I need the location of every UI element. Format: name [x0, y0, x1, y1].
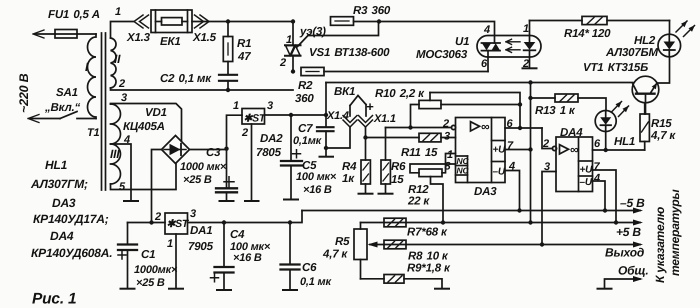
connector X1.5	[195, 15, 210, 28]
ground C6	[283, 289, 297, 291]
ground Obshch output	[598, 279, 641, 289]
ground C1	[121, 288, 135, 290]
label R8 10 k	[408, 251, 449, 263]
svg-text:NC: NC	[457, 156, 470, 166]
resistor R14	[582, 16, 670, 24]
svg-text:+U: +U	[580, 165, 594, 176]
wire +5V riser to top rail	[325, 83, 327, 116]
svg-text:Общ.: Общ.	[618, 264, 649, 278]
wire DA2 input riser	[227, 115, 243, 149]
svg-text:ВК1: ВК1	[334, 86, 355, 98]
node DA1 input junction	[149, 220, 153, 224]
svg-text:2: 2	[118, 78, 125, 90]
capacitor C6	[281, 223, 300, 291]
svg-text:VD1: VD1	[145, 107, 167, 119]
label HL2 AL307BM	[605, 35, 658, 59]
wire EK1 to node 220V-A	[192, 21, 228, 23]
wire DA3 pin6 output	[505, 127, 542, 129]
svg-text:3: 3	[190, 208, 196, 220]
svg-text:SA1: SA1	[56, 87, 78, 99]
connector X1.3	[134, 15, 149, 28]
+5V rail top	[326, 82, 633, 84]
label Ris. 1	[32, 291, 76, 308]
label R1 47	[237, 38, 251, 63]
svg-text:×25 В: ×25 В	[136, 277, 165, 289]
wire mains upper lead with arrow	[33, 30, 55, 38]
node junction R1 top	[226, 19, 230, 23]
svg-text:DA3: DA3	[474, 186, 497, 198]
svg-text:4: 4	[483, 24, 490, 36]
HL2 light arrows	[676, 21, 695, 37]
U1 internal light arrows	[506, 39, 520, 52]
wire DA2 output +5V	[265, 114, 327, 116]
node C2 bottom junction	[226, 88, 230, 92]
node C6 top	[288, 220, 292, 224]
svg-text:К указателю: К указателю	[653, 207, 667, 283]
potentiometer R12	[410, 154, 456, 223]
label C1 1000mk 25V	[134, 249, 178, 289]
label R15 4,7 k	[650, 118, 676, 142]
svg-text:✱ST: ✱ST	[167, 218, 190, 230]
label K ukazatelyu temperatury	[653, 189, 682, 283]
svg-text:∞: ∞	[481, 120, 490, 134]
label R11 15	[401, 147, 438, 159]
label C4 100mk 16V	[230, 229, 271, 264]
svg-text:1: 1	[286, 34, 292, 46]
wire DA3 pin4 to -5V	[505, 171, 520, 211]
resistor R11	[419, 133, 441, 142]
label -5 V	[620, 196, 645, 210]
wire VS1 gate	[298, 22, 379, 47]
node R12 wiper on +5V	[441, 220, 445, 224]
ground R4	[359, 193, 373, 195]
label R14* 120	[564, 28, 611, 40]
svg-text:АЛ307ГМ;: АЛ307ГМ;	[30, 177, 88, 191]
svg-text:1к: 1к	[342, 173, 355, 185]
opamp DA4	[552, 137, 592, 192]
svg-text:VT1 КТ315Б: VT1 КТ315Б	[583, 62, 648, 74]
-5V rail	[302, 210, 640, 212]
wire DA3 pin3 line	[366, 137, 456, 139]
label *ST DA2	[244, 113, 267, 125]
wire HL2 cathode to VT1 emitter	[658, 57, 670, 83]
svg-text:R3 360: R3 360	[353, 5, 391, 17]
wire winding III pin 4 tap to ground	[111, 144, 132, 201]
ground C3	[220, 200, 234, 202]
label R2 360	[295, 80, 314, 105]
svg-text:3: 3	[121, 92, 127, 104]
arrow +5V	[633, 220, 643, 226]
ground R6	[379, 193, 393, 195]
label ~220 V	[17, 73, 31, 113]
wire C2 to pin2 line	[227, 81, 229, 90]
label *ST DA1	[167, 218, 190, 230]
label X1.3	[126, 32, 151, 44]
svg-text:2: 2	[542, 138, 549, 150]
svg-text:R14* 120: R14* 120	[564, 28, 611, 40]
label VT1 KT315B	[583, 62, 648, 74]
wire DA4 pin6 output line	[593, 149, 645, 151]
node C4 top	[222, 220, 226, 224]
node C7 top	[324, 113, 328, 117]
regulator DA1 7905	[165, 213, 188, 289]
svg-text:Т1: Т1	[87, 127, 100, 139]
resistor R3	[331, 17, 380, 26]
resistor R7	[384, 218, 406, 227]
svg-text:Х1.5: Х1.5	[192, 32, 217, 44]
wire DA3 pin2 line	[386, 127, 452, 129]
svg-text:U1: U1	[455, 36, 469, 48]
label +5 V	[616, 225, 641, 239]
capacitor C4	[211, 223, 234, 291]
labels DA1 pins 2 3 1 and name	[154, 208, 214, 253]
wire DA1 output line	[188, 211, 303, 223]
svg-text:R2: R2	[298, 80, 313, 92]
svg-text:×16 В: ×16 В	[303, 184, 332, 196]
node DA3 out riser	[518, 126, 522, 130]
wire R10 feedback to DA3 output	[430, 93, 520, 129]
wire R2 to U1 pin6	[324, 71, 488, 73]
wire DA3 pin7	[505, 149, 531, 151]
node VS1 cathode junction	[291, 69, 295, 73]
node HL1 cathode junction	[604, 148, 608, 152]
label parts list HL1 DA3 DA4	[30, 158, 112, 260]
svg-text:ЕК1: ЕК1	[160, 36, 181, 48]
svg-text:„Вкл.“: „Вкл.“	[44, 102, 81, 114]
svg-text:DA4: DA4	[560, 127, 583, 139]
svg-text:АЛ307БМ: АЛ307БМ	[605, 47, 658, 59]
resistor R9	[361, 275, 443, 289]
resistor R8	[384, 240, 406, 249]
fuse FU1	[55, 30, 96, 39]
ground for winding III tap	[124, 200, 138, 202]
label VS1 pins 1 2 and ue(3)	[279, 26, 326, 69]
connector X1.4	[343, 116, 357, 128]
svg-text:4: 4	[593, 173, 600, 185]
svg-text:КР140УД608А.: КР140УД608А.	[31, 246, 112, 260]
svg-text:R15: R15	[651, 118, 672, 130]
svg-text:2: 2	[241, 127, 248, 139]
label C2 0,1 mk	[160, 73, 212, 85]
wire DA3 out to DA4 pin2	[542, 128, 553, 149]
label FU1 0,5 A	[48, 9, 100, 21]
svg-text:360: 360	[295, 93, 314, 105]
resistor R15	[640, 103, 649, 150]
svg-text:HL1: HL1	[45, 158, 68, 172]
svg-text:R13 1 к: R13 1 к	[535, 105, 576, 117]
wire X1.1 lead to node B	[365, 127, 367, 138]
svg-text:+5 В: +5 В	[616, 225, 641, 239]
transformer T1 winding III	[111, 104, 121, 184]
wire node A to VS1 anode node	[228, 21, 293, 23]
svg-text:R9*1,8 к: R9*1,8 к	[407, 263, 451, 275]
svg-text:R5: R5	[335, 236, 350, 248]
node DA3 pin7 junction	[528, 147, 532, 151]
labels U1 pins 4 6 1 2	[481, 23, 529, 70]
resistor R1	[223, 22, 232, 75]
label DA3	[474, 186, 497, 198]
node feedback R10 right	[518, 102, 522, 106]
svg-text:температуры: температуры	[668, 189, 682, 276]
svg-text:15: 15	[391, 174, 404, 186]
node X1.1 R4 junction	[363, 135, 367, 139]
resistor R4	[361, 138, 370, 194]
heater EK1	[151, 10, 192, 33]
node C5 top	[289, 113, 293, 117]
svg-text:1: 1	[447, 149, 453, 161]
node VS1 anode junction	[291, 19, 295, 23]
node +5V riser	[528, 220, 532, 224]
wire DA4 pin4 to -5V	[593, 181, 606, 211]
label R13 1 k	[535, 105, 576, 117]
ground DA1 pin1	[169, 288, 183, 290]
wire X1.4 lead to C7 node	[326, 127, 350, 148]
DA3 infinity symbol	[481, 120, 490, 134]
+5V bottom line	[361, 222, 641, 224]
label EK1	[160, 36, 181, 48]
label Vykhod	[605, 246, 644, 260]
svg-text:FU1 0,5 А: FU1 0,5 А	[48, 9, 100, 21]
switch SA1	[28, 112, 96, 123]
node -5V DA3 pin4	[517, 208, 521, 212]
triac VS1	[285, 22, 301, 72]
svg-text:NC: NC	[457, 166, 470, 176]
wire winding II pin 1 to EK1 line	[111, 22, 134, 39]
label R5 4,7 k	[322, 236, 350, 261]
node C3 top junction	[224, 147, 228, 151]
svg-text:×16 В: ×16 В	[233, 252, 262, 264]
transformer T1 core	[102, 33, 106, 190]
svg-text:2: 2	[279, 57, 286, 69]
arrow Obshch	[633, 276, 643, 282]
node R13 left	[528, 96, 532, 100]
svg-text:–5 В: –5 В	[620, 196, 645, 210]
svg-text:1: 1	[523, 23, 529, 35]
transistor VT1	[632, 76, 659, 114]
label R7* 68 k	[407, 227, 448, 239]
svg-text:VS1 ВТ138-600: VS1 ВТ138-600	[309, 47, 390, 59]
node C7 bottom junction	[324, 146, 328, 150]
wire +5V riser x530	[530, 83, 532, 223]
label X1.5	[192, 32, 217, 44]
label C5 100mk 16V	[296, 160, 337, 196]
svg-text:2: 2	[154, 211, 161, 223]
wire DA4 pin3 to output line	[542, 172, 556, 245]
svg-text:DA2: DA2	[260, 133, 283, 145]
svg-text:Х1.3: Х1.3	[126, 32, 151, 44]
sensor BK1	[350, 96, 366, 117]
svg-text:7905: 7905	[188, 241, 214, 253]
ground R9	[435, 288, 449, 290]
resistor R13	[531, 94, 607, 111]
wire winding III pin 5 to bridge bottom	[111, 164, 177, 190]
node DA4 pin7 on +5V	[614, 220, 618, 224]
svg-text:+U: +U	[493, 145, 507, 156]
svg-text:R12: R12	[408, 184, 429, 196]
label R10 2,2 k	[375, 88, 425, 100]
svg-text:47: 47	[237, 51, 251, 63]
regulator DA2 7805	[242, 109, 265, 202]
svg-text:×25 В: ×25 В	[183, 174, 212, 186]
svg-text:R11 15: R11 15	[401, 147, 438, 159]
labels DA3 pins 2 3 1 8 6 7 4	[442, 118, 515, 173]
label C3 1000mk 25V	[180, 147, 227, 186]
capacitor C5	[281, 115, 302, 200]
optocoupler U1 MOC3063	[477, 21, 541, 69]
label C6 0,1 mk	[300, 262, 332, 288]
output line Vykhod with R5 wiper arrow	[368, 242, 641, 248]
svg-text:С7: С7	[298, 123, 313, 135]
label X1.4	[326, 110, 349, 122]
label DA4	[560, 127, 583, 139]
svg-text:–U: –U	[580, 177, 593, 188]
svg-text:1: 1	[167, 238, 173, 250]
svg-text:R6: R6	[391, 161, 406, 173]
svg-text:DA4: DA4	[50, 229, 74, 243]
svg-text:КР140УД17А;: КР140УД17А;	[33, 212, 109, 226]
svg-text:2: 2	[442, 118, 449, 130]
wire U1 pin6 riser	[487, 51, 489, 72]
wire gate node to U1 pin4	[379, 22, 495, 44]
labels DA4 pins 2 3 6 7 4	[542, 138, 601, 185]
arrow Vykhod	[633, 242, 643, 248]
label VS1 BT138-600	[309, 47, 390, 59]
DA4 +U -U labels	[580, 165, 594, 189]
transformer labels pins 1 2 3 4 5, I II III, T1	[85, 6, 130, 193]
svg-text:1000мк×: 1000мк×	[134, 264, 178, 276]
svg-text:КЦ405А: КЦ405А	[123, 121, 165, 133]
ground U1 pin2	[523, 67, 537, 69]
capacitor C7	[317, 115, 334, 157]
ground C5	[284, 199, 298, 201]
svg-text:МОС3063: МОС3063	[416, 49, 468, 61]
svg-text:С4: С4	[230, 229, 245, 241]
svg-text:0,1 мк: 0,1 мк	[300, 276, 332, 288]
svg-text:3: 3	[444, 131, 450, 143]
wire bridge minus to DA1 input	[152, 150, 162, 223]
capacitor C2	[219, 75, 237, 81]
resistor R6	[381, 128, 390, 194]
label R6 15	[391, 161, 406, 186]
svg-text:100 мк×: 100 мк×	[296, 171, 337, 183]
svg-text:4,7 к: 4,7 к	[650, 130, 676, 142]
label R12 22 k	[407, 184, 430, 208]
svg-text:С6: С6	[302, 262, 317, 274]
svg-text:С3: С3	[206, 147, 221, 159]
wire winding II pin 2 to VS1 cathode node	[111, 88, 294, 90]
svg-text:1: 1	[115, 6, 121, 18]
ground C4	[217, 289, 231, 291]
label X1.1	[373, 113, 396, 125]
svg-text:+: +	[366, 99, 374, 114]
opamp DA3	[451, 118, 505, 183]
label R9* 1,8 k	[407, 263, 451, 275]
label HL1	[614, 136, 635, 148]
wire U1 pin1 to R14	[530, 20, 583, 22]
label R3 360	[353, 5, 391, 17]
label Obshch	[618, 264, 649, 278]
svg-text:1: 1	[233, 100, 239, 112]
wire DA1 input line	[128, 222, 166, 224]
svg-text:Рис. 1: Рис. 1	[32, 291, 76, 308]
potentiometer R5	[354, 223, 367, 279]
arrow -5V	[633, 208, 643, 214]
ground C7	[320, 156, 334, 158]
svg-text:HL2: HL2	[634, 35, 656, 47]
svg-text:0,1мк: 0,1мк	[293, 135, 323, 147]
label VD1 KC405A	[123, 107, 167, 133]
resistor R10	[411, 93, 521, 128]
svg-text:II: II	[114, 52, 121, 66]
HL1 light arrows	[612, 101, 630, 117]
svg-text:Х1.1: Х1.1	[373, 113, 396, 125]
svg-text:Выход: Выход	[605, 246, 644, 260]
bridge rectifier VD1	[162, 136, 190, 164]
LED HL2	[658, 21, 681, 57]
svg-text:4,7 к: 4,7 к	[322, 249, 348, 261]
svg-text:2: 2	[522, 58, 529, 70]
label C7 0,1mk	[293, 123, 323, 147]
ground DA2 pin2	[245, 200, 259, 202]
connector X1.1	[359, 116, 373, 128]
node R3 gate junction	[377, 19, 381, 23]
svg-text:R10 2,2 к: R10 2,2 к	[375, 88, 425, 100]
DA3 +U -U NC labels	[457, 145, 507, 178]
svg-text:HL1: HL1	[614, 136, 635, 148]
wire winding III pin 3 to bridge top	[111, 104, 182, 142]
labels DA2 pins 1 3 2 and name	[233, 100, 283, 159]
svg-text:DA1: DA1	[190, 225, 212, 237]
svg-text:Х1.4: Х1.4	[326, 110, 349, 122]
svg-text:1000 мк×: 1000 мк×	[180, 161, 227, 173]
node -5V DA4 pin4	[603, 208, 607, 212]
svg-text:4: 4	[123, 134, 130, 146]
DA4 infinity symbol	[570, 143, 579, 157]
svg-text:R4: R4	[342, 161, 357, 173]
svg-text:R8 10 к: R8 10 к	[408, 251, 449, 263]
label BK1 and plus	[334, 86, 374, 114]
label R4 1k	[342, 161, 357, 185]
svg-text:DA3: DA3	[52, 196, 76, 210]
wire DA4 pin7 to +5V	[593, 170, 617, 223]
capacitor C1	[118, 223, 137, 289]
wire bridge plus to C3 node	[190, 149, 227, 151]
svg-text:R1: R1	[237, 38, 251, 50]
svg-text:∞: ∞	[570, 143, 579, 157]
svg-text:С1: С1	[141, 249, 155, 261]
capacitor C3	[216, 149, 237, 201]
LED HL1	[595, 111, 616, 151]
svg-text:✱ST: ✱ST	[244, 113, 267, 125]
node +5V rail to R13 riser	[528, 80, 532, 84]
svg-text:уэ(3): уэ(3)	[299, 26, 326, 38]
svg-text:С2 0,1 мк: С2 0,1 мк	[160, 73, 212, 85]
node DA4 pin3 on output line	[540, 242, 544, 246]
node R10 left junction	[408, 125, 412, 129]
svg-text:22 к: 22 к	[407, 196, 430, 208]
svg-text:~220 В: ~220 В	[17, 73, 31, 113]
transformer T1 winding II	[111, 38, 117, 88]
svg-text:3: 3	[267, 100, 273, 112]
label SA1 "Vkl."	[44, 87, 81, 114]
label U1 MOC3063	[416, 36, 469, 61]
svg-text:–U: –U	[493, 167, 506, 178]
transformer T1 winding I	[88, 34, 97, 119]
resistor R2	[301, 67, 324, 75]
svg-text:R7*68 к: R7*68 к	[407, 227, 448, 239]
svg-text:III: III	[110, 147, 120, 161]
svg-text:7805: 7805	[256, 147, 282, 159]
